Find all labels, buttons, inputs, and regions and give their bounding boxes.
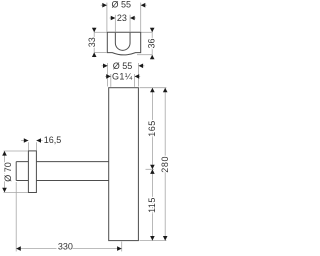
node: pipe wall-side end xyxy=(15,162,17,181)
node: bracket body outline (top view rect) xyxy=(107,32,140,55)
svg-text:16,5: 16,5 xyxy=(44,135,62,145)
wire: G1 1/4 extension left xyxy=(110,74,112,87)
wire: G1 1/4 dimension line xyxy=(105,75,111,77)
wire: 16,5 dimension line xyxy=(21,140,28,142)
wire: 165-115 dimension line xyxy=(151,88,153,241)
wire: top extension line to right dims xyxy=(140,87,167,89)
node: wall flange (escutcheon side view) xyxy=(28,151,36,193)
wire: 36 dimension line xyxy=(151,28,153,60)
wire: extension line right of bracket top xyxy=(141,31,153,33)
wire: dia55 front extension left xyxy=(107,63,109,87)
svg-text:330: 330 xyxy=(58,241,73,251)
wire: 33 extension line bottom xyxy=(94,51,106,53)
node: siphon body (vertical tube) xyxy=(109,88,139,241)
wire: 33 dimension line xyxy=(93,28,95,58)
svg-text:33: 33 xyxy=(87,37,97,47)
node: U-shaped cutout in top view xyxy=(115,32,130,50)
wire: dia55 dimension line with outside arrows xyxy=(101,4,107,6)
svg-text:Ø 70: Ø 70 xyxy=(3,162,13,182)
wire: dia55 front dimension line xyxy=(102,65,108,67)
wire: 330 extension line right xyxy=(121,242,123,252)
svg-text:36: 36 xyxy=(147,38,157,48)
wire: extension line left of bracket top xyxy=(94,31,107,33)
svg-text:23: 23 xyxy=(117,13,127,23)
svg-text:Ø 55: Ø 55 xyxy=(113,61,133,71)
wire: 23 extension line left xyxy=(114,15,116,33)
wire: dia70 extension bottom xyxy=(4,191,28,193)
wire: 23 extension line right xyxy=(129,15,131,33)
wire: G1 1/4 extension right xyxy=(134,74,136,87)
wire: mid extension line (outlet axis) xyxy=(146,168,155,170)
wire: dia55 extension line right xyxy=(140,3,142,32)
wire: dia70 dimension line xyxy=(4,151,6,192)
svg-text:280: 280 xyxy=(160,156,170,173)
svg-text:Ø 55: Ø 55 xyxy=(112,0,132,10)
node: outlet pipe (horizontal) xyxy=(16,161,109,163)
wire: 330 extension line left xyxy=(15,182,17,251)
svg-text:115: 115 xyxy=(147,197,157,213)
wire: dia55 extension line left xyxy=(106,3,108,32)
wire: bottom extension line to right dims xyxy=(140,240,167,242)
wire: 330 dimension line xyxy=(16,248,56,250)
svg-text:165: 165 xyxy=(147,120,157,137)
wire: 23 dimension line with outside arrows xyxy=(110,17,116,19)
wire: 16,5 extension line right xyxy=(35,142,37,150)
svg-text:G1¼: G1¼ xyxy=(112,72,133,82)
wire: dia70 extension top xyxy=(4,150,28,152)
wire: dia55 front extension right xyxy=(138,63,140,87)
wire: 16,5 extension line left xyxy=(27,142,29,150)
wire: 280 dimension line xyxy=(164,88,166,241)
wire: 36 extension line bottom xyxy=(137,54,152,56)
